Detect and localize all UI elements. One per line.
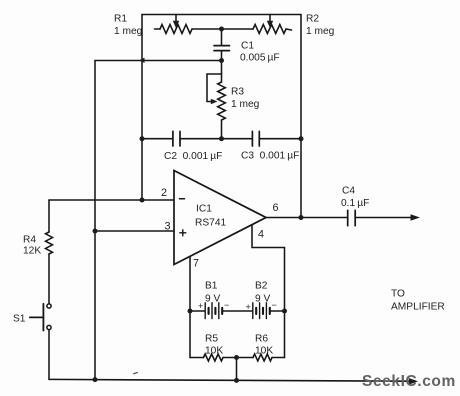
svg-text:7: 7	[193, 258, 199, 270]
junction R1-vertical / C2 line	[140, 136, 145, 141]
svg-text:−: −	[224, 300, 229, 310]
wire R4 branch upper lead	[48, 200, 50, 232]
svg-text:AMPLIFIER: AMPLIFIER	[391, 302, 445, 313]
wire R3 bottom lead	[221, 120, 223, 139]
wire feedback line (C1 bottom to left rail)	[95, 60, 222, 62]
resistor element R3 (1 meg pot)	[218, 82, 226, 120]
svg-text:1 meg: 1 meg	[306, 26, 335, 37]
svg-text:B2: B2	[255, 281, 268, 292]
junction R1-vertical / pin2 line	[140, 198, 145, 203]
svg-text:RS741: RS741	[195, 218, 226, 229]
op-amp non-inverting input plus sign	[180, 230, 186, 236]
svg-text:R3: R3	[231, 87, 244, 98]
svg-text:C4: C4	[342, 186, 355, 197]
capacitor C4 plates	[348, 210, 356, 225]
svg-text:1 meg: 1 meg	[231, 99, 260, 110]
svg-text:S1: S1	[13, 314, 26, 325]
potentiometer wiper arrow R3	[207, 74, 222, 102]
node feedback line crossing tick	[139, 58, 144, 63]
svg-text:C2 0.001 µF: C2 0.001 µF	[164, 151, 222, 162]
junction right rail / output line	[299, 215, 304, 220]
junction C1 top node	[219, 27, 224, 32]
wire battery line B2 right lead	[270, 310, 285, 312]
resistor R5 element	[204, 354, 224, 361]
op-amp inverting input minus sign	[180, 198, 185, 200]
svg-text:C3 0.001 µF: C3 0.001 µF	[241, 151, 299, 162]
output arrowhead to amplifier	[411, 214, 421, 221]
wire output pin 6 line	[266, 217, 347, 219]
svg-text:R5: R5	[205, 334, 218, 345]
wire battery line B1 left lead	[190, 310, 205, 312]
wire R6 right lead	[272, 357, 285, 359]
potentiometer wiper arrow R2	[269, 15, 271, 22]
svg-text:R2: R2	[306, 14, 319, 25]
svg-text:+: +	[198, 301, 203, 311]
wire pin 4 lead	[252, 225, 285, 358]
capacitor C2 plates	[173, 131, 180, 146]
capacitor C1 plates	[214, 46, 230, 51]
svg-text:C1: C1	[241, 41, 254, 52]
op-amp U1 IC1 RS741 triangle	[174, 171, 266, 265]
resistor R4 element	[46, 232, 53, 254]
svg-text:2: 2	[161, 187, 167, 199]
wire R1 to R2 (through C1 top node)	[192, 28, 253, 30]
potentiometer wiper arrow R1	[175, 15, 177, 22]
pushbutton switch S1	[47, 304, 51, 308]
svg-text:4: 4	[258, 229, 264, 241]
stray scan tick near ground rail	[133, 372, 138, 373]
capacitor C3 plates	[252, 131, 259, 146]
wire left rail (down to ground rail)	[94, 61, 96, 380]
svg-text:+: +	[246, 302, 251, 312]
svg-text:B1: B1	[205, 281, 218, 292]
wire pin 7 lead	[189, 257, 191, 358]
svg-text:−: −	[272, 300, 277, 310]
wire R1 dead-end lead	[155, 28, 161, 30]
junction left rail / pin3 line	[93, 229, 98, 234]
wire R2 dead-end lead	[286, 29, 292, 30]
svg-text:12K: 12K	[23, 246, 41, 257]
wire battery series link	[223, 310, 253, 312]
svg-text:10K: 10K	[255, 346, 273, 357]
svg-text:9 V: 9 V	[255, 294, 270, 305]
svg-text:R4: R4	[23, 235, 36, 246]
junction R5-R6 node	[234, 355, 239, 360]
svg-text:0.1 µF: 0.1 µF	[341, 198, 369, 209]
wire pin 3 input line	[95, 230, 174, 232]
wire C2 to R3 node	[180, 138, 252, 140]
wire R4 to S1	[48, 254, 50, 304]
svg-text:6: 6	[273, 202, 279, 214]
resistor element R2 (1 meg pot)	[253, 25, 286, 34]
svg-text:R6: R6	[255, 334, 268, 345]
wire C3 to right rail	[260, 138, 302, 140]
ground rail arrowhead to amplifier	[409, 378, 418, 385]
junction C2-C3 line / right rail	[299, 136, 304, 141]
battery B2 cells	[253, 303, 267, 319]
wire R5 left lead	[190, 357, 204, 359]
wire ground rail	[49, 379, 410, 381]
svg-text:SeekIC.com: SeekIC.com	[362, 373, 456, 390]
wire pin 2 input line	[49, 199, 174, 201]
svg-text:0.005 µF: 0.005 µF	[240, 53, 280, 64]
wire R1 left vertical (top rail to pin2 line)	[141, 15, 143, 201]
wire C1 bottom lead	[221, 51, 223, 61]
svg-text:10K: 10K	[205, 346, 223, 357]
svg-text:IC1: IC1	[196, 204, 212, 215]
resistor R6 element	[253, 354, 272, 361]
junction pin4 / battery line	[282, 309, 287, 314]
wire C2 line left	[142, 138, 173, 140]
svg-text:9 V: 9 V	[205, 294, 220, 305]
wire S1 to ground rail	[48, 330, 50, 380]
svg-text:3: 3	[165, 221, 171, 233]
junction C1 bottom / R3 / feedback	[219, 58, 224, 63]
battery B1 cells	[205, 303, 219, 319]
svg-text:R1: R1	[114, 14, 127, 25]
svg-text:1 meg: 1 meg	[114, 26, 143, 37]
junction left rail / ground rail	[93, 377, 98, 382]
wire R5 to R6 link	[223, 357, 253, 359]
junction R5-R6 stub / ground rail	[234, 378, 239, 383]
resistor element R1 (1 meg pot)	[160, 25, 192, 34]
junction R3 bottom / C2-C3 line	[219, 136, 224, 141]
svg-text:TO: TO	[391, 289, 405, 300]
wire C4 to output arrow	[356, 217, 412, 219]
junction pin7 / battery line	[188, 309, 193, 314]
wire R3 top lead	[221, 61, 223, 83]
wire right rail (top rail down to output line)	[300, 15, 302, 218]
wire C1 top lead	[221, 29, 223, 45]
wire top rail	[142, 14, 301, 16]
wire R5/R6 node to ground rail	[236, 358, 238, 381]
